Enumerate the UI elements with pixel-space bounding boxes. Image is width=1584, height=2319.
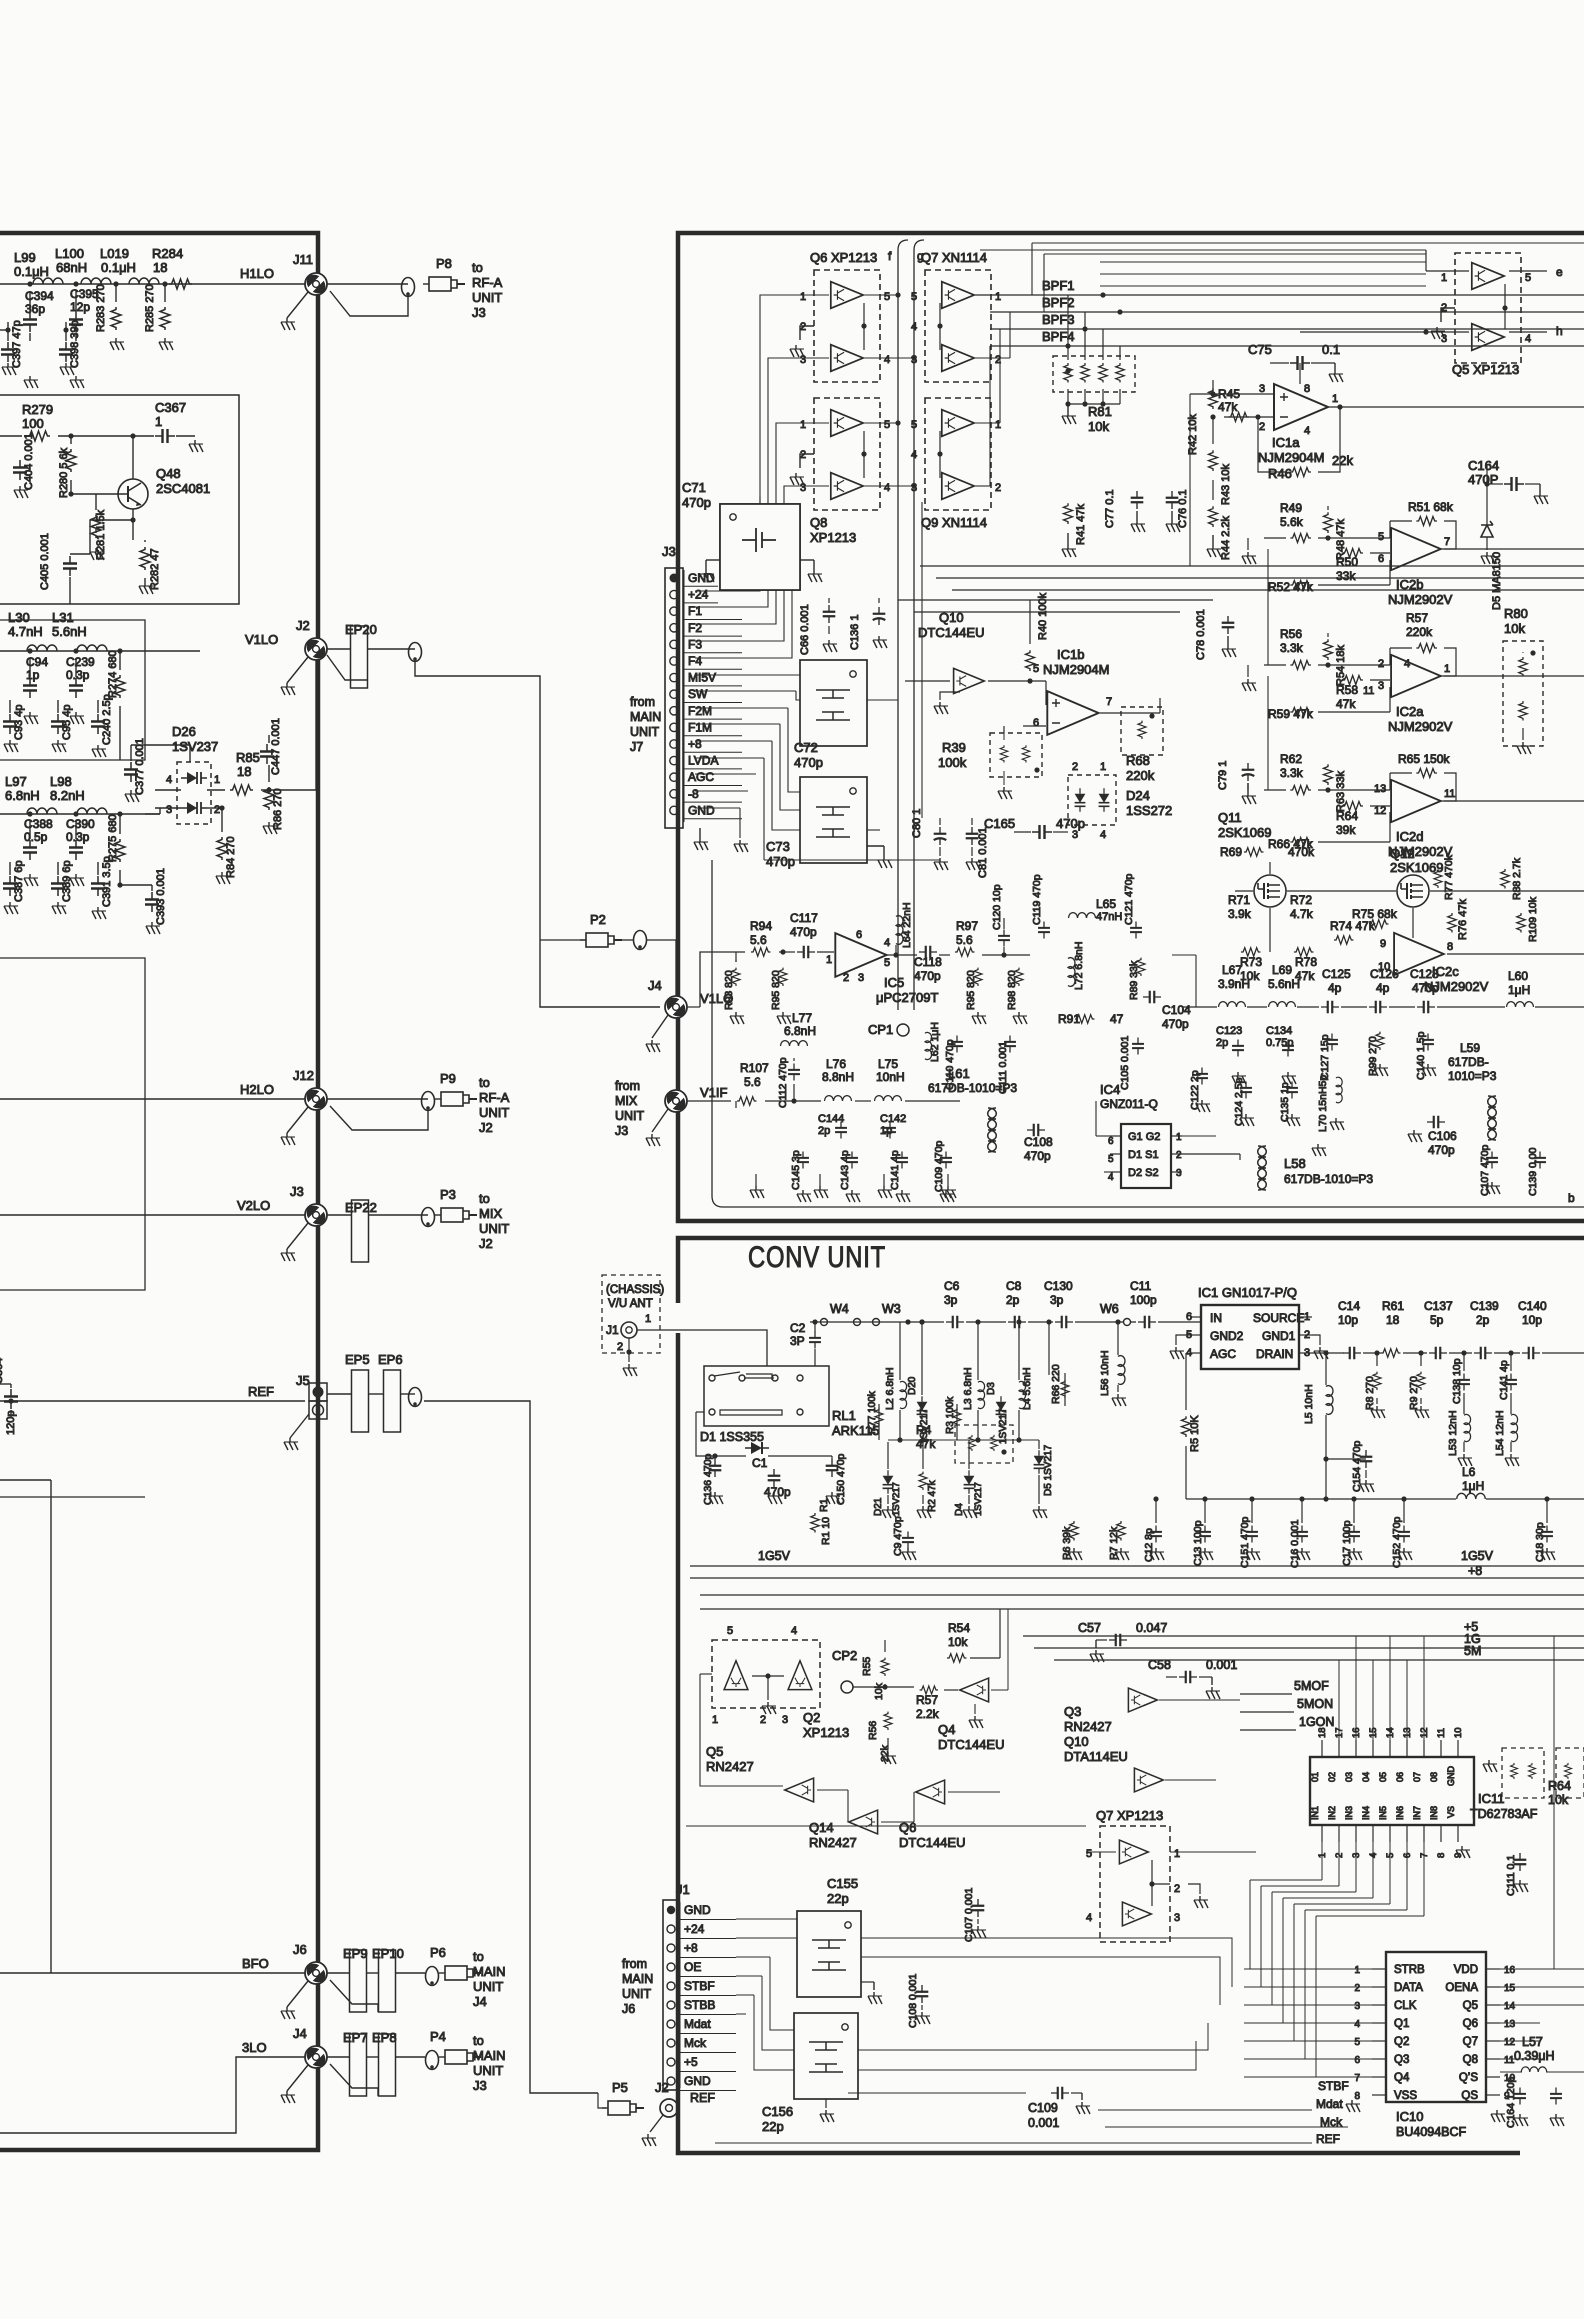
svg-text:4: 4	[1525, 333, 1531, 345]
svg-text:R56: R56	[1280, 627, 1302, 641]
svg-text:Q2: Q2	[803, 1710, 820, 1725]
wire W4 W3 line	[810, 1321, 900, 1323]
svg-text:1SV217: 1SV217	[998, 1408, 1009, 1444]
svg-text:UNIT: UNIT	[479, 1221, 509, 1236]
resistor R88	[1501, 869, 1510, 889]
svg-text:C71: C71	[682, 480, 706, 495]
svg-text:SW: SW	[688, 687, 708, 701]
svg-text:R52 47k: R52 47k	[1268, 580, 1314, 594]
svg-text:J4: J4	[648, 978, 662, 993]
svg-text:R4: R4	[916, 1423, 932, 1437]
svg-text:47k: 47k	[1336, 697, 1356, 711]
resistor R59	[1290, 708, 1311, 717]
capacitor C142	[884, 1122, 896, 1139]
svg-text:1p: 1p	[880, 1125, 892, 1137]
svg-text:UNIT: UNIT	[630, 725, 660, 739]
capacitor C111	[1514, 1853, 1527, 1871]
inductor L97	[27, 808, 57, 814]
svg-text:L69: L69	[1272, 963, 1292, 977]
resistor R43	[1209, 450, 1218, 471]
capacitor C107b	[1486, 1152, 1498, 1169]
svg-text:R1: R1	[818, 1498, 830, 1512]
wire nest IF strip to buffers	[695, 295, 829, 591]
svg-text:P3: P3	[440, 1187, 456, 1202]
svg-text:R68: R68	[1126, 753, 1150, 768]
svg-text:EP7: EP7	[343, 2030, 368, 2045]
svg-text:UNIT: UNIT	[473, 2063, 503, 2078]
svg-text:J1: J1	[606, 1323, 619, 1337]
wires Q2 area	[853, 1686, 914, 1688]
resistor R78	[1294, 948, 1314, 957]
svg-text:J2: J2	[479, 1120, 493, 1135]
capacitor C397	[1, 342, 15, 362]
wires Q48 block	[0, 435, 22, 437]
capacitor C164b	[1514, 2088, 1526, 2105]
svg-text:2p: 2p	[1476, 1313, 1490, 1327]
resistor R73	[1241, 948, 1261, 957]
svg-text:L100: L100	[55, 246, 84, 261]
svg-text:+5: +5	[684, 2055, 698, 2069]
svg-text:C404 0.001: C404 0.001	[23, 433, 35, 490]
buffer array Q6 dashed box	[814, 270, 880, 382]
svg-text:R99 270: R99 270	[1367, 1036, 1379, 1076]
svg-text:1SV237: 1SV237	[172, 739, 218, 754]
svg-text:1: 1	[1176, 1132, 1182, 1143]
buffer Q2b	[788, 1661, 812, 1690]
capacitor C57	[1109, 1634, 1127, 1647]
svg-text:STRB: STRB	[1394, 1964, 1425, 1976]
svg-text:2: 2	[1259, 421, 1265, 433]
wire REF to CONV	[424, 1401, 598, 2093]
svg-text:L53 12nH: L53 12nH	[1447, 1410, 1459, 1456]
svg-text:C377 0.001: C377 0.001	[134, 738, 146, 795]
wires strip to C72 C73	[695, 674, 800, 676]
svg-text:18: 18	[1317, 1727, 1328, 1738]
resistor array R81 dashed box	[1053, 356, 1135, 392]
svg-text:5: 5	[884, 291, 890, 303]
ground R80	[1522, 728, 1524, 740]
svg-text:C239: C239	[66, 655, 95, 669]
svg-text:R95 820: R95 820	[770, 970, 782, 1010]
svg-text:Q7 XP1213: Q7 XP1213	[1096, 1808, 1163, 1823]
capacitor C76	[1166, 491, 1179, 509]
svg-text:470p: 470p	[790, 925, 817, 939]
svg-text:R2 47k: R2 47k	[927, 1479, 938, 1512]
cable ring after EP6	[409, 1388, 422, 1407]
resistor R80 dashed box	[1503, 641, 1543, 746]
svg-text:470P: 470P	[1468, 472, 1498, 487]
svg-text:NJM2902V: NJM2902V	[1388, 592, 1453, 607]
bus lines mid	[700, 1594, 1584, 1596]
svg-text:C390: C390	[66, 817, 95, 831]
svg-text:XP1213: XP1213	[803, 1725, 849, 1740]
svg-text:R284: R284	[152, 246, 183, 261]
wires IC2b	[1264, 537, 1286, 539]
svg-text:8.2nH: 8.2nH	[50, 788, 85, 803]
svg-text:5.6: 5.6	[750, 933, 767, 947]
svg-text:Q14: Q14	[809, 1820, 834, 1835]
opamp IC1b	[1047, 691, 1098, 735]
capacitor C8	[1008, 1316, 1026, 1329]
svg-text:617DB-1010=P3: 617DB-1010=P3	[928, 1081, 1017, 1095]
resistor R279	[27, 431, 50, 441]
inductor L31	[77, 645, 107, 651]
svg-text:12: 12	[1374, 805, 1386, 817]
wires R77 R3 tops	[878, 1404, 880, 1440]
svg-text:D26: D26	[172, 724, 196, 739]
transistor Q48	[118, 479, 148, 509]
varicap diode D26a	[181, 772, 207, 784]
wires Q5 connections	[1509, 270, 1547, 272]
svg-text:5.6k: 5.6k	[1280, 515, 1304, 529]
svg-text:C144: C144	[818, 1113, 844, 1125]
resistor R77v	[1434, 870, 1442, 888]
IC4 wires	[1096, 1135, 1110, 1137]
svg-text:C66 0.001: C66 0.001	[799, 604, 811, 655]
IC1 GN1017 box	[1201, 1305, 1299, 1369]
svg-text:15: 15	[1504, 1983, 1516, 1994]
svg-text:D24: D24	[1126, 788, 1150, 803]
svg-text:C140 1.5p: C140 1.5p	[1415, 1031, 1427, 1080]
ground Q6 pin2	[800, 326, 814, 340]
svg-text:C75: C75	[1248, 342, 1272, 357]
svg-text:470p: 470p	[1056, 816, 1085, 831]
svg-text:R46: R46	[1268, 466, 1292, 481]
svg-text:GND: GND	[684, 2074, 711, 2088]
svg-text:C447 0.001: C447 0.001	[270, 718, 282, 775]
resistor R81-2	[1081, 363, 1090, 383]
svg-text:617DB-: 617DB-	[1448, 1055, 1489, 1069]
svg-text:68nH: 68nH	[56, 260, 87, 275]
svg-text:R3 100k: R3 100k	[945, 1396, 956, 1434]
svg-text:1μH: 1μH	[1462, 1479, 1484, 1493]
svg-text:UNIT: UNIT	[472, 290, 502, 305]
svg-text:RN2427: RN2427	[809, 1835, 857, 1850]
capacitor C109c	[1051, 2087, 1069, 2100]
capacitor C6	[946, 1316, 964, 1329]
capacitor C137	[1429, 1347, 1447, 1360]
svg-text:0.047: 0.047	[1136, 1621, 1167, 1635]
inductor L56	[1118, 1356, 1125, 1385]
buffer Q2a	[724, 1661, 748, 1690]
capacitor C122	[1196, 1068, 1208, 1085]
svg-text:R7 12k: R7 12k	[1108, 1526, 1120, 1560]
svg-text:J2: J2	[479, 1236, 493, 1251]
resistor R52	[1290, 581, 1311, 590]
svg-text:R93 820: R93 820	[723, 970, 735, 1010]
svg-text:RF-A: RF-A	[472, 275, 503, 290]
capacitor C123	[1232, 1040, 1244, 1057]
svg-text:IN1: IN1	[1310, 1806, 1320, 1820]
svg-text:R91: R91	[1058, 1012, 1080, 1026]
resistor R80b	[1519, 701, 1528, 721]
svg-text:GND: GND	[1446, 1766, 1456, 1787]
buffer array Q7 dashed box	[925, 270, 991, 382]
svg-text:2: 2	[843, 972, 849, 984]
svg-text:C104: C104	[1162, 1003, 1191, 1017]
svg-text:J6: J6	[293, 1942, 307, 1957]
svg-text:4: 4	[1100, 829, 1106, 841]
svg-text:C391 3.5p: C391 3.5p	[101, 856, 113, 907]
svg-text:R56: R56	[867, 1721, 879, 1740]
opamp IC5	[835, 933, 886, 977]
svg-text:470p: 470p	[1162, 1017, 1189, 1031]
connector J1 chassis	[621, 1322, 637, 1338]
capacitor C136 polarized	[873, 607, 886, 625]
buffer Q5c	[785, 1778, 814, 1802]
svg-text:7: 7	[1354, 2073, 1360, 2084]
capacitor C124	[1240, 1082, 1252, 1099]
buffer array Q2 dashed box	[712, 1640, 820, 1708]
svg-text:BPF4: BPF4	[1042, 329, 1075, 344]
svg-text:22p: 22p	[762, 2119, 784, 2134]
svg-text:2SK1069: 2SK1069	[1218, 825, 1272, 840]
svg-text:2p: 2p	[1216, 1037, 1228, 1049]
wires cap bottom row	[1204, 1499, 1206, 1523]
inductor L100	[81, 278, 111, 284]
ferrite EP8	[379, 2034, 396, 2096]
svg-text:P6: P6	[430, 1945, 446, 1960]
svg-text:V1LO: V1LO	[245, 632, 278, 647]
svg-text:6: 6	[856, 929, 862, 941]
resistor R57c	[920, 1686, 938, 1694]
svg-text:5MOF: 5MOF	[1294, 1679, 1329, 1693]
relay box C73	[800, 777, 867, 863]
ground GND1 pin	[1312, 1335, 1320, 1345]
wires L97 filter	[27, 811, 32, 816]
capacitor C125	[1321, 1001, 1339, 1014]
buffer array Q5 dashed box	[1455, 253, 1521, 363]
wire 1G5V rail CONV	[1186, 1498, 1456, 1500]
varicap diode D26b	[181, 802, 207, 814]
svg-text:470p: 470p	[1024, 1149, 1051, 1163]
svg-text:2p: 2p	[818, 1125, 830, 1137]
resistor R39b	[1022, 745, 1030, 762]
svg-text:8: 8	[1304, 383, 1310, 395]
capacitor C81	[966, 827, 979, 845]
ferrite EP6	[384, 1370, 401, 1432]
inductor L2	[900, 1381, 907, 1408]
svg-text:BU4094BCF: BU4094BCF	[1396, 2125, 1467, 2139]
svg-text:C156: C156	[762, 2104, 793, 2119]
wire bundle IC11-IC10	[1321, 1842, 1323, 1880]
svg-text:C136 1: C136 1	[849, 615, 861, 650]
capacitor C239	[69, 678, 83, 698]
svg-text:C364: C364	[0, 1358, 5, 1384]
svg-text:J3: J3	[472, 305, 486, 320]
svg-text:AGC: AGC	[688, 770, 714, 784]
resistor R97	[955, 948, 975, 957]
svg-text:D2 S2: D2 S2	[1128, 1167, 1159, 1179]
inductor L019	[129, 278, 159, 284]
svg-text:3: 3	[166, 804, 172, 816]
svg-text:+8: +8	[684, 1941, 698, 1955]
capacitor C395	[69, 312, 83, 332]
chassis V/U ANT dashed box	[602, 1275, 660, 1353]
svg-text:10k: 10k	[1548, 1793, 1569, 1807]
resistor R39 dashed box	[990, 733, 1042, 777]
svg-text:R64: R64	[1548, 1779, 1571, 1793]
capacitor C141b	[896, 1152, 908, 1169]
svg-text:Q11: Q11	[1218, 810, 1242, 825]
connector J3 V2LO	[303, 1202, 330, 1229]
ground under strip	[699, 828, 701, 838]
svg-text:6: 6	[1033, 717, 1039, 729]
bus 1G5V line	[690, 1565, 1584, 1567]
svg-text:NJM2904M: NJM2904M	[1043, 662, 1109, 677]
capacitor C104	[1143, 991, 1161, 1004]
resistor R81-1	[1064, 363, 1073, 383]
resistor R39a	[1000, 745, 1008, 762]
capacitor C109b	[940, 1152, 952, 1169]
relay box C72	[800, 660, 867, 746]
svg-text:2: 2	[1378, 658, 1384, 670]
inner sub-box left filters	[0, 620, 145, 760]
svg-text:10nH: 10nH	[876, 1070, 905, 1084]
svg-text:1μH: 1μH	[1508, 983, 1530, 997]
bottom inner wire of IF box	[723, 1206, 1584, 1208]
svg-text:Q8: Q8	[1463, 2054, 1478, 2066]
capacitor C120	[998, 930, 1010, 947]
svg-text:R51 68k: R51 68k	[1408, 500, 1454, 514]
IC4 box	[1121, 1124, 1171, 1188]
svg-text:C18 30p: C18 30p	[1534, 1522, 1546, 1562]
svg-text:Q2: Q2	[1394, 2036, 1409, 2048]
svg-text:220k: 220k	[1126, 768, 1155, 783]
svg-text:0.1: 0.1	[1322, 342, 1340, 357]
transistor Q4 buffer	[960, 1678, 989, 1702]
resistor R68 dashed box	[1121, 707, 1163, 755]
svg-text:C57: C57	[1078, 1621, 1101, 1635]
svg-text:4: 4	[884, 482, 890, 494]
resistor R40	[1026, 650, 1035, 671]
svg-text:6.8nH: 6.8nH	[784, 1024, 816, 1038]
svg-text:C111 0.1: C111 0.1	[1505, 1855, 1517, 1896]
cable ring P9	[422, 1092, 435, 1111]
resistor R7	[1117, 1521, 1126, 1541]
svg-text:C117: C117	[790, 911, 818, 925]
svg-text:3.3k: 3.3k	[1280, 641, 1304, 655]
inductor L98	[77, 808, 107, 814]
svg-text:to: to	[472, 260, 483, 275]
svg-text:C95 4p: C95 4p	[61, 705, 73, 740]
resistor R84	[217, 837, 227, 860]
svg-text:C81 0.001: C81 0.001	[977, 827, 989, 878]
capacitor C107c	[972, 1899, 985, 1917]
capacitor C367	[155, 429, 175, 443]
svg-text:XP1213: XP1213	[810, 530, 856, 545]
svg-text:V1IF: V1IF	[700, 1085, 728, 1100]
svg-text:47k: 47k	[916, 1437, 936, 1451]
svg-text:5.6nH: 5.6nH	[52, 624, 87, 639]
resistor R41	[1064, 503, 1073, 524]
inductor L62	[925, 1032, 932, 1059]
svg-text:C14: C14	[1338, 1299, 1360, 1313]
resistor R64 dashed box 1	[1502, 1748, 1544, 1798]
grounds L67 row	[1232, 1072, 1246, 1084]
capacitor C240	[91, 714, 105, 734]
svg-text:3: 3	[1441, 333, 1447, 345]
svg-text:L99: L99	[14, 250, 36, 265]
capacitor C119	[1038, 922, 1050, 939]
svg-text:g: g	[917, 249, 924, 263]
svg-text:39k: 39k	[1336, 823, 1356, 837]
varicap D24 dashed box	[1068, 775, 1116, 825]
svg-text:to: to	[479, 1191, 490, 1206]
svg-text:R44 2.2k: R44 2.2k	[1220, 515, 1232, 560]
svg-text:C128: C128	[1410, 967, 1439, 981]
resistor R1	[811, 1513, 820, 1533]
svg-text:C143 4p: C143 4p	[839, 1150, 851, 1190]
resistor R89	[1137, 958, 1145, 976]
svg-text:NJM2902V: NJM2902V	[1388, 719, 1453, 734]
svg-text:0.75p: 0.75p	[1266, 1037, 1294, 1049]
wires under relay	[704, 1455, 746, 1457]
svg-text:NJM2904M: NJM2904M	[1258, 450, 1324, 465]
svg-text:10k: 10k	[1504, 621, 1525, 636]
resistor R85	[230, 785, 253, 795]
ground Q2	[767, 1676, 769, 1700]
svg-text:18: 18	[237, 764, 251, 779]
svg-text:R57: R57	[1406, 611, 1428, 625]
plug P8	[423, 277, 465, 291]
svg-text:R94: R94	[750, 919, 772, 933]
svg-text:R55: R55	[861, 1657, 873, 1676]
svg-text:LVDA: LVDA	[688, 754, 718, 768]
opamp IC2b	[1391, 528, 1441, 570]
svg-text:IN7: IN7	[1412, 1806, 1422, 1820]
wires IC10 right	[1500, 1968, 1584, 1970]
svg-text:DATA: DATA	[1394, 1982, 1423, 1994]
svg-text:8: 8	[1354, 2091, 1360, 2102]
svg-text:C134: C134	[1266, 1025, 1292, 1037]
svg-text:L72 6.8nH: L72 6.8nH	[1073, 942, 1085, 990]
buffer array Q8 dashed box	[814, 398, 880, 510]
resistor R281	[91, 515, 101, 538]
buffer Q7c1	[1119, 1840, 1148, 1864]
wire verticals Q9 to C80 area	[921, 502, 923, 818]
resistor R94	[751, 948, 771, 957]
transformer L61	[988, 1108, 997, 1152]
resistor R66c	[1061, 1380, 1069, 1398]
resistor R6	[1070, 1521, 1079, 1541]
resistor R45	[1228, 413, 1249, 422]
svg-text:2: 2	[214, 804, 220, 816]
wire IC1a input riser	[1189, 394, 1191, 566]
svg-text:C121 470p: C121 470p	[1123, 873, 1135, 925]
svg-text:BPF3: BPF3	[1042, 312, 1075, 327]
resistor R69	[1244, 848, 1264, 857]
resistor R5	[1182, 1416, 1191, 1437]
svg-text:C9 470p: C9 470p	[892, 1516, 904, 1556]
svg-text:R62: R62	[1280, 752, 1302, 766]
cable ring P3 in	[422, 1208, 435, 1227]
svg-text:1: 1	[712, 1714, 718, 1726]
svg-text:R42 10k: R42 10k	[1187, 414, 1199, 455]
varicap D26 dashed box	[177, 762, 211, 824]
svg-text:R9 270: R9 270	[1408, 1376, 1420, 1410]
svg-text:5p: 5p	[1430, 1313, 1444, 1327]
diode D1 1SS355	[745, 1442, 769, 1454]
capacitor C126	[1369, 1001, 1387, 1014]
svg-text:C6: C6	[944, 1279, 960, 1293]
svg-text:R5 10K: R5 10K	[1189, 1415, 1201, 1452]
svg-text:IC10: IC10	[1396, 2109, 1423, 2124]
filter L97/L98 rail	[0, 813, 160, 815]
svg-text:0.3p: 0.3p	[66, 668, 90, 682]
svg-text:C2: C2	[790, 1321, 806, 1335]
ground R64	[1483, 1760, 1497, 1772]
